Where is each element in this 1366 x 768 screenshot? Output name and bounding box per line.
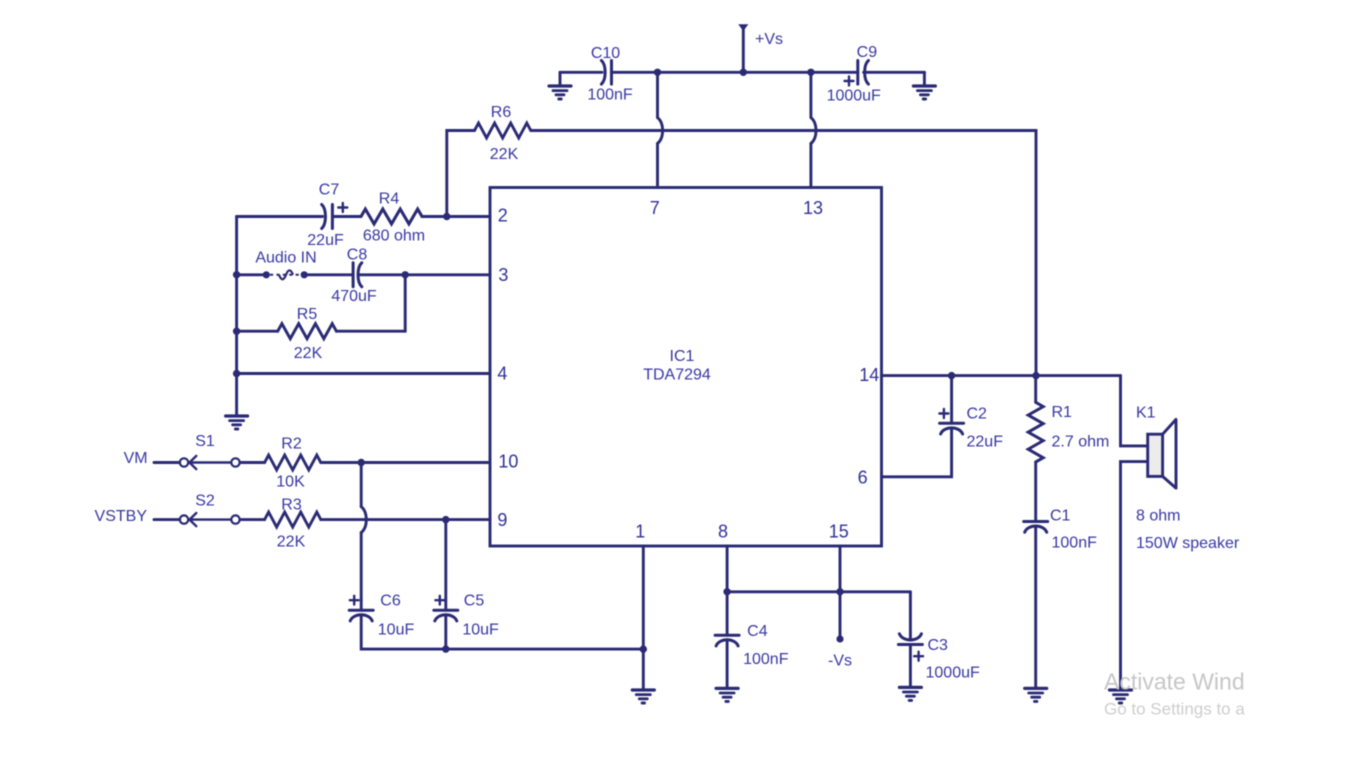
svg-text:22uF: 22uF bbox=[307, 232, 344, 249]
switch S2 bbox=[180, 493, 240, 527]
node junction pin2/R6 bbox=[443, 213, 450, 220]
ground (pin1) bbox=[632, 690, 654, 703]
wire pin14 output row bbox=[882, 374, 1121, 377]
node junction pin14/R1 bbox=[1032, 372, 1039, 379]
resistor R5 bbox=[278, 306, 337, 362]
capacitor C10 bbox=[587, 45, 633, 104]
svg-text:8 ohm: 8 ohm bbox=[1136, 508, 1180, 525]
svg-text:IC1: IC1 bbox=[670, 348, 695, 365]
svg-text:Go to Settings to a: Go to Settings to a bbox=[1104, 700, 1245, 719]
svg-text:10K: 10K bbox=[276, 474, 305, 491]
svg-text:2: 2 bbox=[498, 206, 508, 226]
svg-text:1000uF: 1000uF bbox=[827, 88, 881, 105]
svg-text:C8: C8 bbox=[347, 247, 368, 264]
svg-text:K1: K1 bbox=[1136, 405, 1156, 422]
svg-text:470uF: 470uF bbox=[331, 288, 377, 305]
wire R1 to C1 bbox=[1034, 462, 1037, 522]
node junction pin9/C5 bbox=[442, 516, 449, 523]
wire S1 to R2 bbox=[240, 461, 265, 464]
svg-text:VSTBY: VSTBY bbox=[95, 508, 148, 525]
node junction pin10/C6 bbox=[358, 459, 365, 466]
ground (C4) bbox=[716, 688, 738, 701]
wire pin7 vertical with hop bbox=[656, 72, 659, 187]
svg-text:3: 3 bbox=[498, 265, 508, 285]
svg-text:S1: S1 bbox=[195, 433, 215, 450]
node junction rail/pin13 bbox=[807, 69, 814, 76]
capacitor C9 bbox=[827, 44, 881, 105]
svg-text:C6: C6 bbox=[380, 593, 401, 610]
ground (speaker) bbox=[1110, 690, 1132, 703]
wire R5 row bbox=[237, 330, 406, 333]
wire pin2 row bbox=[237, 215, 490, 218]
wire R1 top lead bbox=[1034, 376, 1037, 403]
svg-text:-Vs: -Vs bbox=[828, 653, 852, 670]
svg-text:150W speaker: 150W speaker bbox=[1136, 535, 1240, 552]
svg-text:8: 8 bbox=[718, 522, 728, 542]
node junction left rail/pin4 bbox=[233, 370, 240, 377]
svg-text:10: 10 bbox=[498, 452, 518, 472]
svg-text:22K: 22K bbox=[277, 534, 306, 551]
resistor R4 bbox=[361, 191, 425, 245]
svg-text:100nF: 100nF bbox=[587, 87, 633, 104]
wire C3 branch bbox=[909, 592, 912, 687]
svg-text:7: 7 bbox=[650, 198, 660, 218]
svg-text:C3: C3 bbox=[927, 637, 948, 654]
wire pin3 row bbox=[237, 273, 490, 276]
capacitor C3 bbox=[898, 634, 980, 682]
node junction pin15/neg rail bbox=[836, 588, 843, 595]
resistor R2 bbox=[265, 436, 321, 491]
svg-text:C2: C2 bbox=[967, 406, 988, 423]
capacitor C2 bbox=[939, 406, 1003, 451]
svg-text:R2: R2 bbox=[281, 436, 302, 453]
wire C5 to bottom rail bbox=[444, 615, 447, 649]
capacitor C5 bbox=[434, 593, 499, 639]
svg-text:R6: R6 bbox=[491, 104, 512, 121]
svg-text:R4: R4 bbox=[379, 191, 400, 208]
node junction C5/bottom rail bbox=[442, 645, 449, 652]
wire speaker positive lead bbox=[1121, 376, 1148, 446]
svg-text:C1: C1 bbox=[1050, 508, 1071, 525]
wire R2 to pin10 bbox=[321, 461, 490, 464]
svg-text:S2: S2 bbox=[195, 493, 215, 510]
speaker K1 bbox=[1136, 405, 1240, 553]
audio input source bbox=[255, 250, 316, 280]
svg-text:9: 9 bbox=[497, 510, 507, 530]
ground (top left) bbox=[549, 86, 571, 99]
-Vs terminal bbox=[828, 635, 852, 669]
wire stub to right ground bbox=[923, 72, 926, 85]
+Vs terminal bbox=[738, 24, 783, 72]
svg-text:C5: C5 bbox=[464, 593, 485, 610]
wire left input rail bbox=[235, 217, 238, 416]
ground (input rail) bbox=[226, 416, 248, 429]
wire S2 to R3 bbox=[240, 518, 265, 521]
wire R6 output feedback to pin14 node bbox=[531, 131, 1036, 376]
capacitor C7 bbox=[307, 182, 347, 250]
svg-text:10uF: 10uF bbox=[378, 622, 415, 639]
wire pin1 drop bbox=[642, 546, 645, 690]
svg-text:R1: R1 bbox=[1052, 404, 1073, 421]
ground (C3) bbox=[899, 687, 921, 700]
svg-text:VM: VM bbox=[124, 450, 148, 467]
wire negative supply rail bbox=[727, 590, 910, 593]
svg-text:C10: C10 bbox=[591, 45, 620, 62]
svg-text:2.7 ohm: 2.7 ohm bbox=[1052, 434, 1110, 451]
svg-text:Audio IN: Audio IN bbox=[255, 250, 316, 267]
svg-text:C4: C4 bbox=[747, 623, 768, 640]
wire R6 left drop to pin2 row bbox=[447, 131, 475, 217]
wire R5 riser bbox=[404, 275, 407, 331]
node junction pin8/neg rail bbox=[723, 588, 730, 595]
svg-text:1: 1 bbox=[635, 522, 645, 542]
svg-text:22K: 22K bbox=[490, 146, 519, 163]
svg-text:R5: R5 bbox=[297, 306, 318, 323]
svg-text:C9: C9 bbox=[857, 44, 878, 61]
wire pin8 drop bbox=[726, 546, 729, 688]
svg-text:+Vs: +Vs bbox=[755, 31, 783, 48]
wire C6 to bottom rail bbox=[361, 615, 643, 649]
capacitor C6 bbox=[349, 593, 414, 639]
svg-text:100nF: 100nF bbox=[1052, 535, 1098, 552]
wire pin15 drop bbox=[839, 546, 842, 639]
svg-text:C7: C7 bbox=[319, 182, 340, 199]
svg-text:1000uF: 1000uF bbox=[926, 665, 980, 682]
svg-text:6: 6 bbox=[858, 467, 868, 487]
wire pin13 vertical with hop bbox=[809, 72, 812, 187]
wire C1 to ground bbox=[1034, 526, 1037, 688]
node junction pin14/C2 bbox=[948, 372, 955, 379]
svg-text:TDA7294: TDA7294 bbox=[643, 367, 711, 384]
wire stub to left ground bbox=[559, 72, 562, 85]
ground (C1) bbox=[1025, 688, 1047, 701]
svg-text:4: 4 bbox=[497, 364, 507, 384]
node junction pin1/bottom rail bbox=[640, 645, 647, 652]
IC IC1 TDA7294 body bbox=[490, 188, 882, 547]
wire VSTBY lead bbox=[154, 518, 180, 521]
wire speaker negative lead bbox=[1121, 462, 1148, 690]
svg-text:22K: 22K bbox=[294, 345, 323, 362]
svg-text:100nF: 100nF bbox=[743, 651, 789, 668]
svg-text:680 ohm: 680 ohm bbox=[363, 228, 425, 245]
capacitor C8 bbox=[331, 247, 377, 306]
switch S1 bbox=[180, 433, 240, 469]
node junction left rail/pin3 bbox=[233, 271, 240, 278]
wire C6 branch with hop over pin9 row bbox=[360, 463, 363, 611]
wire top supply rail bbox=[560, 71, 924, 74]
wire R3 to pin9 bbox=[321, 518, 490, 521]
wire pin4 row bbox=[237, 372, 490, 375]
node junction rail/+Vs bbox=[740, 69, 747, 76]
capacitor C1 bbox=[1024, 508, 1097, 552]
svg-text:22uF: 22uF bbox=[967, 434, 1004, 451]
wire C2 branch bbox=[882, 376, 952, 477]
node junction left rail/R5 bbox=[233, 328, 240, 335]
svg-text:15: 15 bbox=[829, 522, 849, 542]
resistor R3 bbox=[265, 497, 321, 551]
ground (top right) bbox=[913, 86, 935, 99]
resistor R1 bbox=[1028, 402, 1109, 462]
node junction rail/pin7 bbox=[654, 69, 661, 76]
svg-text:13: 13 bbox=[803, 198, 823, 218]
resistor R6 bbox=[475, 104, 531, 163]
wire C5 branch bbox=[444, 520, 447, 611]
capacitor C4 bbox=[715, 623, 789, 668]
svg-text:10uF: 10uF bbox=[462, 622, 499, 639]
svg-text:R3: R3 bbox=[281, 497, 302, 514]
wire VM lead bbox=[154, 461, 180, 464]
svg-text:14: 14 bbox=[859, 365, 879, 385]
svg-text:Activate Wind: Activate Wind bbox=[1104, 669, 1245, 695]
node junction pin3/R5 bbox=[402, 271, 409, 278]
